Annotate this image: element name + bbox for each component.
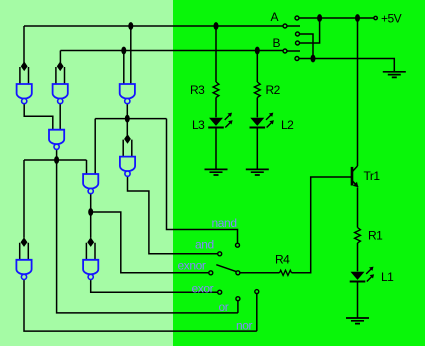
svg-text:R3: R3 (190, 83, 205, 97)
gate G2 (NAND as NOT, input B) (56, 61, 65, 84)
junction ground row (311, 55, 316, 63)
switch A top contact (295, 16, 299, 20)
wire B bottom contact to ground (299, 59, 394, 72)
wire N5 to exnor contact (91, 212, 209, 273)
resistor R4 (horizontal) (280, 270, 292, 275)
LED L1 (350, 267, 374, 282)
gate G3 (NAND A,B) (120, 84, 135, 104)
gate G7 (NOT of G4 = NOR) (20, 237, 29, 260)
svg-text:R1: R1 (368, 229, 383, 243)
wire G7 output to nor row (24, 280, 257, 332)
gate G4 (NAND of G1,G2 = OR) (49, 130, 64, 150)
wire N5 down to gate G8 (90, 212, 92, 238)
switch B top contact (296, 41, 300, 45)
resistor R1 (355, 228, 361, 244)
junction +5V rail at collector column (355, 14, 360, 22)
wire +5V rail down to Tr1 collector (357, 18, 359, 166)
wire L1 to ground (357, 282, 359, 319)
switch A lever (287, 25, 300, 27)
wire B rail to R2 (256, 51, 258, 83)
wire N4 to gate G5 left input (86, 160, 88, 174)
wire G4 output to node N4 (56, 150, 58, 160)
switch B bottom contact (295, 57, 299, 61)
gate G6 (NOT of G3 = AND) (123, 134, 132, 157)
wire G2 output to G4 right input (59, 104, 61, 130)
wire N3 to nand contact (167, 119, 238, 244)
svg-text:+5V: +5V (381, 12, 402, 26)
rotary contact nor (255, 290, 259, 294)
wire A drop to gate G1 (23, 26, 25, 64)
wire A rail (24, 25, 283, 27)
rotary switch lever (216, 265, 236, 272)
svg-text:R4: R4 (275, 253, 290, 267)
junction node A-G3 (128, 22, 133, 30)
background left pale panel (0, 0, 173, 346)
transistor Tr1 (352, 166, 358, 187)
+5V terminal circle (374, 16, 377, 19)
gate G1 (NAND as NOT, input A) (20, 61, 29, 84)
switch A pole terminal (283, 24, 287, 28)
wire +5V junction down to B top contact (300, 18, 320, 43)
svg-text:nor: nor (236, 319, 253, 333)
resistor R2 (254, 82, 260, 98)
ground below L3 (205, 169, 228, 175)
wire B to gate G3 left input (123, 51, 125, 85)
svg-text:B: B (273, 36, 281, 50)
wire or contact drop (237, 301, 239, 313)
wire Tr1 emitter to R1 (357, 188, 359, 228)
ground top right (383, 72, 406, 78)
svg-text:L1: L1 (381, 270, 394, 284)
svg-text:L2: L2 (281, 118, 294, 132)
rotary contact exor (218, 290, 222, 294)
wire G6 output to and contact (128, 177, 218, 254)
svg-text:or: or (219, 300, 229, 314)
gate G8 (NOT of G5 = XOR) (86, 237, 95, 260)
gate G5 (NAND of G4,G3 = XNOR) (83, 174, 98, 194)
wire A rail to R3 (215, 26, 217, 82)
rotary contact nand (236, 243, 240, 247)
svg-text:exor: exor (192, 282, 214, 296)
wire R2 to L2 (256, 98, 258, 118)
junction node A-R3 (214, 22, 219, 30)
switch B pole terminal (283, 49, 287, 53)
svg-text:A: A (271, 10, 279, 24)
LED L2 (249, 113, 273, 128)
wire N3 to gate G5 right input (94, 119, 96, 174)
wire L3 to ground (215, 128, 217, 170)
wire Tr1 base to R4 (292, 177, 353, 273)
switch B lever (287, 50, 300, 52)
wire node N3 horizontal (95, 118, 166, 120)
svg-text:exnor: exnor (178, 259, 206, 273)
svg-text:nand: nand (212, 216, 237, 230)
wire N3 to gate G6 tied inputs (126, 119, 128, 135)
rotary contact or (236, 297, 240, 301)
resistor R3 (213, 82, 219, 98)
switch A bottom contact (296, 32, 300, 36)
rotary contact and (218, 252, 222, 256)
wire G5 output to node N5 (90, 194, 92, 212)
ground below L1 (346, 318, 369, 324)
wire B rail (60, 50, 283, 52)
rotary contact exnor (209, 271, 213, 275)
wire G3 output to node N3 (126, 104, 128, 119)
wire node N4 horizontal (24, 159, 87, 161)
wire B drop to gate G2 (59, 51, 61, 65)
junction node N3 (125, 115, 130, 123)
wire N4 to gate G7 (23, 160, 25, 238)
junction node N5 (88, 208, 93, 216)
svg-text:R2: R2 (266, 83, 281, 97)
rotary pole (236, 271, 240, 275)
wire G8 output to exor contact (91, 280, 218, 293)
svg-text:L3: L3 (192, 118, 205, 132)
wire A to gate G3 right input (130, 26, 132, 84)
wire A bottom contact to ground row (300, 34, 314, 59)
wire G1 output to G4 left input (24, 104, 53, 130)
ground below L2 (246, 169, 269, 175)
wire R4 to rotary pole (240, 272, 280, 274)
svg-text:Tr1: Tr1 (364, 169, 381, 183)
background right green panel (173, 0, 425, 346)
wire R1 to L1 (357, 243, 359, 271)
junction +5V rail at switch column (317, 14, 322, 22)
wire L2 to ground (256, 128, 258, 170)
LED L3 (208, 113, 232, 128)
junction node B-R2 (255, 47, 260, 55)
wire R3 to L3 (215, 98, 217, 118)
wire N4 down to or row (57, 160, 238, 313)
junction node B-G3 (121, 47, 126, 55)
svg-text:and: and (195, 238, 214, 252)
wire switch A top contact to +5V rail (299, 17, 374, 19)
junction node N4 (54, 156, 59, 164)
wire nor contact drop (256, 294, 258, 331)
